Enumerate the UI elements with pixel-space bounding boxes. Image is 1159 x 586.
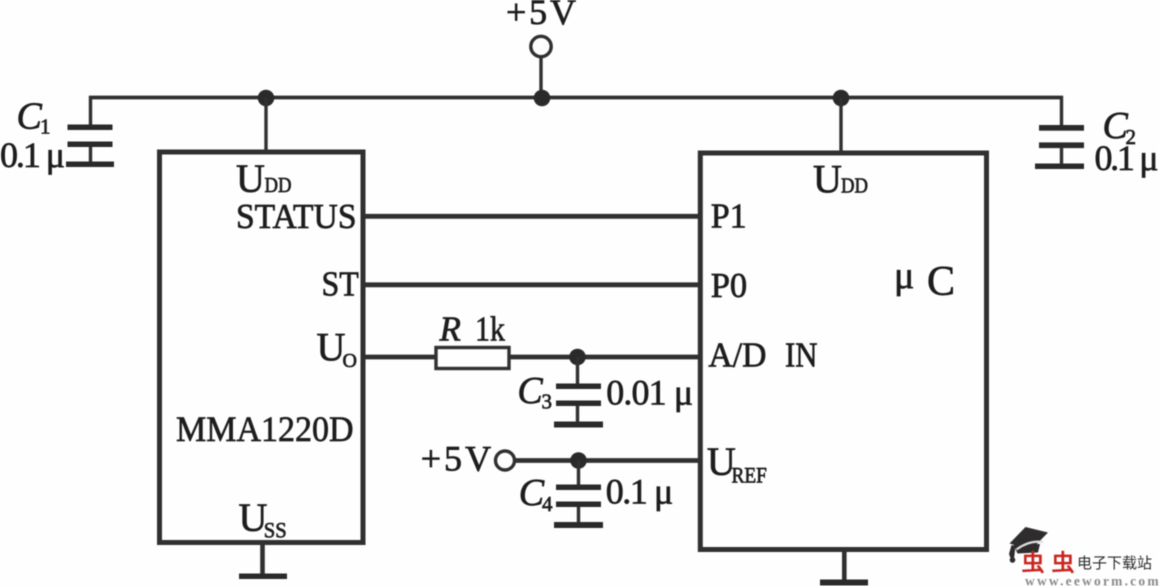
node: rail junction above U1 bbox=[258, 90, 275, 107]
svg-text:P1: P1 bbox=[711, 198, 747, 236]
svg-text:C: C bbox=[17, 96, 43, 138]
svg-text:U: U bbox=[236, 156, 265, 201]
svg-text:www.eeworm.com: www.eeworm.com bbox=[1025, 574, 1159, 586]
svg-text:O: O bbox=[343, 350, 357, 372]
svg-text:0.1 μ: 0.1 μ bbox=[606, 472, 674, 512]
svg-text:0.01 μ: 0.01 μ bbox=[606, 373, 693, 413]
svg-text:REF: REF bbox=[732, 463, 767, 488]
node: rail junction above U2 bbox=[833, 90, 850, 107]
svg-text:1k: 1k bbox=[475, 310, 505, 349]
svg-text:SS: SS bbox=[264, 518, 287, 543]
svg-text:+5V: +5V bbox=[506, 0, 576, 32]
capacitor C1 0.1u bbox=[0, 96, 113, 176]
wire: resistor to A/D IN bbox=[509, 355, 702, 360]
capacitor C4 0.1u bbox=[519, 461, 674, 524]
svg-text:P0: P0 bbox=[711, 267, 748, 305]
ground (C2) bbox=[1035, 164, 1084, 170]
IC U2 microcontroller bbox=[700, 153, 986, 550]
graduation cap icon bbox=[1009, 527, 1048, 563]
svg-text:U: U bbox=[317, 325, 346, 370]
svg-text:C: C bbox=[519, 472, 545, 514]
wire: +5V top rail bbox=[89, 96, 1063, 100]
svg-text:R: R bbox=[439, 310, 461, 349]
node: UREF junction bbox=[570, 452, 587, 469]
svg-text:U: U bbox=[813, 157, 842, 202]
node: A/D IN junction bbox=[569, 349, 586, 366]
wire: +5V terminal to UREF bbox=[514, 458, 702, 463]
wire: UO to resistor R bbox=[361, 355, 436, 360]
ground (C4) bbox=[554, 522, 603, 528]
svg-text:电子下载站: 电子下载站 bbox=[1077, 555, 1152, 572]
svg-text:μ: μ bbox=[894, 255, 914, 297]
svg-text:DD: DD bbox=[841, 174, 868, 198]
+5V supply terminal bbox=[506, 0, 576, 98]
capacitor C2 0.1u bbox=[1039, 96, 1159, 178]
node: rail junction below +5V terminal bbox=[534, 90, 551, 107]
svg-text:DD: DD bbox=[265, 173, 292, 197]
svg-text:C: C bbox=[927, 259, 955, 305]
ground (U2) bbox=[820, 550, 868, 586]
svg-text:3: 3 bbox=[542, 390, 553, 414]
+5V terminal at UREF bbox=[421, 439, 515, 479]
svg-text:A/D: A/D bbox=[708, 336, 766, 375]
svg-text:0.1 μ: 0.1 μ bbox=[0, 135, 65, 175]
ground (C3) bbox=[554, 422, 603, 428]
svg-text:+5V: +5V bbox=[421, 439, 491, 479]
wire: STATUS to P1 bbox=[361, 214, 702, 219]
ground (C1) bbox=[66, 162, 114, 168]
wire: ST to P0 bbox=[361, 282, 702, 287]
ground (U1) bbox=[239, 543, 287, 579]
watermark logo eeworm bbox=[1009, 527, 1159, 586]
svg-text:STATUS: STATUS bbox=[236, 198, 357, 236]
svg-text:ST: ST bbox=[322, 266, 359, 304]
wire: rail to U2 UDD pin bbox=[839, 98, 842, 152]
svg-text:MMA1220D: MMA1220D bbox=[176, 409, 354, 449]
IC U1 MMA1220D bbox=[160, 152, 364, 543]
svg-text:IN: IN bbox=[785, 336, 818, 375]
svg-text:4: 4 bbox=[542, 492, 553, 516]
svg-text:C: C bbox=[517, 370, 543, 412]
wire: rail to U1 UDD pin bbox=[264, 98, 267, 152]
capacitor C3 0.01u bbox=[517, 357, 693, 422]
resistor R 1k bbox=[436, 310, 509, 369]
svg-text:0.1 μ: 0.1 μ bbox=[1095, 138, 1159, 178]
svg-text:虫虫: 虫虫 bbox=[1022, 551, 1082, 576]
